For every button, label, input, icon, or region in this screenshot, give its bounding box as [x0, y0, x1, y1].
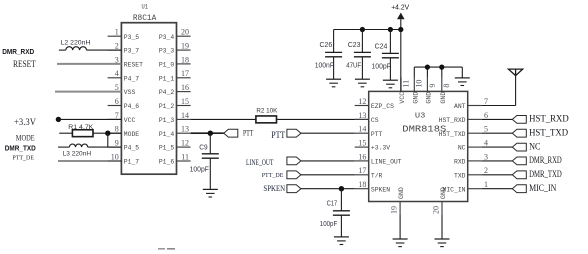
U3 pin 4 NC — [458, 139, 488, 152]
port flag HST_TXD — [482, 128, 569, 138]
node rail dot C24 — [388, 27, 393, 32]
svg-text:6: 6 — [115, 97, 119, 106]
L3 value label — [63, 151, 92, 158]
resistor R1 — [72, 130, 93, 137]
svg-text:P1_7: P1_7 — [124, 159, 140, 166]
svg-text:HST_TXD: HST_TXD — [439, 131, 466, 138]
U3 pin 19 GND (bottom) — [390, 187, 405, 215]
U1 pin 20 P3_4 — [159, 28, 191, 41]
svg-text:P3_3: P3_3 — [159, 48, 175, 55]
LINE_OUT label — [246, 157, 274, 167]
wire MODE to R1 — [59, 132, 72, 134]
port flag LINE_OUT — [287, 157, 301, 165]
node rail dot C23 — [360, 27, 365, 32]
wire rail to pin10 — [413, 67, 415, 77]
svg-text:100pF: 100pF — [320, 221, 337, 228]
svg-text:VSS: VSS — [124, 89, 136, 96]
port flag PTT (to U3 pin14) — [287, 129, 301, 137]
wire VSS to U1 pin 5 — [55, 91, 121, 93]
port flag HST_RXD — [482, 115, 569, 125]
svg-text:19: 19 — [181, 42, 189, 51]
svg-text:NC: NC — [529, 142, 540, 152]
svg-text:ANT: ANT — [454, 103, 466, 110]
capacitor C24 — [382, 30, 399, 88]
svg-text:DMR_TXD: DMR_TXD — [529, 170, 562, 180]
wire DMR_RXD to L2 — [59, 49, 66, 51]
svg-text:L3 220nH: L3 220nH — [63, 151, 92, 158]
svg-text:P3_5: P3_5 — [124, 34, 140, 41]
svg-text:DMR_TXD: DMR_TXD — [5, 146, 36, 153]
U3 pin 1 MIC_IN — [442, 180, 488, 193]
svg-text:RESET: RESET — [13, 59, 36, 69]
svg-text:P1_3: P1_3 — [159, 117, 175, 124]
svg-text:GND: GND — [440, 187, 447, 199]
wire DMR_TXD to L3 — [58, 146, 69, 148]
wire junction down to pin9 row — [107, 133, 109, 147]
wire U3 pin20 to ground — [441, 215, 443, 239]
svg-text:15: 15 — [181, 97, 189, 106]
IC U1 R8C1A body — [121, 23, 176, 175]
svg-text:U3: U3 — [415, 113, 426, 121]
svg-text:MIC_IN: MIC_IN — [529, 184, 556, 194]
svg-text:10: 10 — [111, 152, 119, 161]
node rail dot pin8 — [439, 65, 444, 70]
power +4.2V label — [391, 5, 409, 12]
svg-text:GND: GND — [398, 187, 405, 199]
wire rail to pin8 — [441, 67, 443, 77]
svg-text:P1_0: P1_0 — [159, 62, 175, 69]
wire L2 to U1 pin 2 — [87, 49, 122, 51]
capacitor C26 — [325, 30, 342, 87]
svg-text:20: 20 — [432, 206, 441, 214]
net label +3.3V — [14, 117, 36, 127]
svg-text:17: 17 — [358, 166, 366, 175]
U3 part name DMR818S — [402, 123, 446, 134]
power +4.2V arrow — [397, 13, 405, 20]
inductor L3 — [69, 144, 87, 147]
wire L3 to U1 pin 9 — [88, 146, 122, 148]
wire U1 pin14 to R2 — [191, 118, 256, 120]
svg-text:3: 3 — [484, 152, 488, 161]
svg-text:2: 2 — [115, 42, 119, 51]
U3 pin 15 +3.3V — [355, 139, 391, 152]
R2 value label — [256, 108, 278, 115]
SPKEN label — [263, 183, 285, 193]
net label DMR_RXD — [2, 49, 34, 56]
wire rail to ground — [461, 67, 463, 78]
svg-text:PTT: PTT — [371, 131, 383, 138]
port flag DMR_TXD — [482, 170, 562, 180]
U1 pin 11 P1_6 — [159, 152, 191, 165]
U1 pin 13 P1_4 — [159, 125, 191, 138]
U3 pin 6 HST_RXD — [439, 111, 488, 124]
svg-text:+3.3V: +3.3V — [14, 117, 36, 127]
U3 pin 2 TXD — [454, 166, 488, 179]
U1 pin 9 P4_5 — [108, 139, 140, 152]
U1 pin 10 P1_7 — [108, 152, 140, 165]
svg-text:DMR_RXD: DMR_RXD — [2, 49, 34, 56]
PTT label (U3 side) — [271, 130, 285, 140]
U1 pin 12 P1_5 — [159, 139, 191, 152]
wire LINE_OUT flag to U3 pin16 — [301, 160, 355, 162]
svg-text:P3_7: P3_7 — [124, 48, 140, 55]
wire U1 pin13 to PTT port — [191, 132, 224, 134]
port flag DMR_RXD — [482, 156, 562, 166]
port flag SPKEN — [287, 185, 301, 193]
C24 designator — [375, 43, 388, 50]
node C17 junction dot — [339, 186, 344, 191]
svg-text:14: 14 — [181, 111, 189, 120]
svg-text:100pF: 100pF — [372, 63, 391, 70]
svg-text:16: 16 — [181, 83, 189, 92]
wire PTT_DE to U1 pin 10 — [58, 160, 121, 162]
svg-text:19: 19 — [390, 206, 399, 214]
svg-text:7: 7 — [115, 111, 119, 120]
svg-text:1: 1 — [115, 28, 119, 37]
U1 designator — [142, 4, 149, 11]
svg-text:RXD: RXD — [454, 159, 466, 166]
svg-text:11: 11 — [181, 152, 189, 161]
capacitor C9 — [202, 133, 219, 197]
C9 value 100pF — [190, 167, 209, 174]
U1 pin 6 P4_6 — [108, 97, 140, 110]
svg-text:18: 18 — [181, 55, 189, 64]
U3 pin 12 EZP_CS — [355, 97, 394, 110]
U1 pin 1 P3_5 — [108, 28, 140, 41]
U3 pin 14 PTT — [355, 125, 383, 138]
svg-text:HST_RXD: HST_RXD — [529, 115, 569, 125]
net label PTT_DE — [12, 156, 34, 162]
svg-text:PTT: PTT — [271, 130, 285, 140]
U3 pin 5 HST_TXD — [439, 125, 488, 138]
svg-text:47UF: 47UF — [346, 62, 361, 69]
U3 pin 7 ANT — [454, 97, 488, 110]
wire +4.2V rail — [334, 29, 401, 31]
svg-text:P1_2: P1_2 — [159, 103, 175, 110]
U3 pin 16 LINE_OUT — [355, 152, 402, 165]
svg-text:R2 10K: R2 10K — [256, 108, 278, 115]
svg-text:EZP_CS: EZP_CS — [371, 103, 394, 110]
svg-text:13: 13 — [181, 125, 189, 134]
svg-text:MODE: MODE — [16, 133, 35, 142]
svg-text:RESET: RESET — [124, 62, 143, 69]
svg-text:1: 1 — [484, 180, 488, 189]
svg-text:LINE_OUT: LINE_OUT — [246, 157, 274, 167]
svg-text:CS: CS — [371, 117, 379, 124]
capacitor C23 — [354, 30, 371, 87]
svg-text:7: 7 — [484, 97, 488, 106]
svg-text:P1_4: P1_4 — [159, 131, 175, 138]
ground (U3 pin19) — [393, 239, 408, 247]
U3 pin 18 SPKEN — [355, 180, 391, 193]
svg-text:10: 10 — [415, 80, 424, 88]
net label MODE — [16, 133, 35, 142]
svg-text:P4_2: P4_2 — [159, 89, 175, 96]
C9 designator — [199, 144, 207, 151]
L2 value label — [61, 40, 91, 47]
C24 value 100pF — [372, 63, 391, 70]
wire RESET to U1 pin 3 — [57, 63, 121, 65]
U1 pin 5 VSS — [108, 83, 136, 96]
svg-text:12: 12 — [181, 139, 189, 148]
port flag PTT (from U1) — [224, 129, 238, 137]
svg-text:PTT_DE: PTT_DE — [12, 156, 34, 162]
U1 pin 4 P4_7 — [108, 69, 140, 82]
svg-text:8: 8 — [115, 125, 119, 134]
svg-text:C17: C17 — [327, 200, 338, 207]
wire +3.3V to U1 pin 7 VCC — [58, 118, 121, 120]
U1 pin 14 P1_3 — [159, 111, 191, 124]
svg-text:GND: GND — [426, 92, 433, 104]
U3 designator — [415, 113, 426, 121]
U1 pin 18 P1_0 — [159, 55, 191, 68]
svg-text:SPKEN: SPKEN — [263, 183, 285, 193]
node +3.3V junction dot — [56, 117, 61, 122]
wire PTT flag to U3 pin14 — [301, 132, 355, 134]
svg-text:12: 12 — [358, 97, 366, 106]
svg-text:HST_TXD: HST_TXD — [529, 128, 568, 138]
U1 pin 16 P4_2 — [159, 83, 191, 96]
svg-text:P4_5: P4_5 — [124, 145, 140, 152]
port flag PTT_DE — [287, 171, 301, 179]
C26 designator — [320, 42, 333, 49]
svg-text:13: 13 — [358, 111, 366, 120]
svg-text:100pF: 100pF — [190, 167, 209, 174]
U3 pin 10 GND (top) — [413, 77, 424, 103]
svg-text:P4_6: P4_6 — [124, 103, 140, 110]
svg-text:P3_4: P3_4 — [159, 34, 175, 41]
U1 pin 15 P1_2 — [159, 97, 191, 110]
svg-text:15: 15 — [358, 139, 366, 148]
net label DMR_TXD — [5, 146, 36, 153]
svg-text:100nF: 100nF — [315, 62, 334, 69]
svg-text:17: 17 — [181, 69, 189, 78]
U3 pin 13 CS — [355, 111, 379, 124]
svg-text:C26: C26 — [320, 42, 333, 49]
wire R1 to U1 pin 8 — [93, 132, 121, 134]
svg-text:DMR_RXD: DMR_RXD — [529, 156, 562, 166]
svg-text:14: 14 — [358, 125, 366, 134]
ground (U3 pin20) — [435, 239, 450, 247]
U1 pin 17 P1_1 — [159, 69, 191, 82]
svg-text:11: 11 — [401, 80, 410, 88]
PTT label (U1 side) — [243, 129, 253, 138]
U1 pin 2 P3_7 — [108, 42, 140, 55]
U1 pin 19 P3_3 — [159, 42, 191, 55]
svg-text:2: 2 — [484, 166, 488, 175]
U3 pin 20 GND (bottom) — [432, 187, 447, 215]
wire ANT to antenna — [482, 76, 516, 106]
wire PTT_DE flag to U3 pin17 — [301, 174, 355, 176]
svg-text:+4.2V: +4.2V — [391, 5, 409, 12]
U3 pin 17 T/R — [355, 166, 383, 179]
svg-text:GND: GND — [413, 92, 420, 104]
svg-text:R1 4.7K: R1 4.7K — [68, 124, 94, 131]
svg-text:P4_7: P4_7 — [124, 75, 140, 82]
svg-text:PTT_DE: PTT_DE — [262, 172, 284, 179]
svg-text:16: 16 — [358, 152, 366, 161]
svg-text:9: 9 — [115, 139, 119, 148]
IC U3 DMR818S body — [369, 91, 468, 201]
svg-text:U1: U1 — [142, 4, 149, 11]
U1 part name R8C1A — [133, 14, 157, 23]
R1 value label — [68, 124, 94, 131]
svg-text:P1_6: P1_6 — [159, 159, 175, 166]
svg-text:NC: NC — [458, 145, 466, 152]
wire U3 top gnd rail — [414, 66, 462, 68]
C26 value 100nF — [315, 62, 334, 69]
svg-text:8: 8 — [442, 84, 451, 88]
U1 pin 3 RESET — [108, 55, 144, 68]
port flag MIC_IN — [482, 184, 557, 194]
wire U3 pin19 to ground — [399, 215, 401, 239]
svg-text:5: 5 — [484, 125, 488, 134]
svg-text:PTT: PTT — [243, 129, 253, 138]
U3 pin 9 GND (top) — [426, 77, 437, 103]
U1 pin 8 MODE — [108, 125, 140, 138]
port flag NC — [482, 142, 541, 152]
svg-text:C9: C9 — [199, 144, 207, 151]
svg-text:P1_5: P1_5 — [159, 145, 175, 152]
U3 pin 3 RXD — [454, 152, 488, 165]
svg-text:VCC: VCC — [399, 92, 406, 104]
svg-text:4: 4 — [484, 139, 488, 148]
svg-text:C23: C23 — [348, 42, 361, 49]
svg-text:P1_1: P1_1 — [159, 75, 175, 82]
node rail dot pin9 — [425, 65, 430, 70]
svg-text:20: 20 — [181, 28, 189, 37]
svg-text:HST_RXD: HST_RXD — [439, 117, 466, 124]
node C9 junction dot — [208, 131, 213, 136]
svg-text:+3.3V: +3.3V — [371, 145, 390, 152]
PTT_DE label — [262, 172, 284, 179]
net label RESET — [13, 59, 36, 69]
svg-text:LINE_OUT: LINE_OUT — [371, 159, 402, 166]
node R1/P4_5 junction dot — [105, 131, 110, 136]
antenna E1 — [508, 69, 522, 76]
svg-text:T/R: T/R — [371, 172, 383, 179]
node rail dot at +4.2V line — [398, 27, 403, 32]
U3 pin 11 VCC (top) — [399, 77, 410, 103]
wire R2 to U3 pin13 CS — [277, 118, 369, 120]
svg-text:VCC: VCC — [124, 117, 136, 124]
wire rail to pin9 — [426, 67, 428, 77]
svg-text:C24: C24 — [375, 43, 388, 50]
C17 designator — [327, 200, 338, 207]
inductor L2 — [66, 47, 87, 50]
resistor R2 — [256, 116, 277, 123]
C23 value 47UF — [346, 62, 361, 69]
svg-text:R8C1A: R8C1A — [133, 14, 157, 23]
svg-text:GND: GND — [440, 92, 447, 104]
svg-text:4: 4 — [115, 69, 119, 78]
faint bottom marks — [158, 248, 175, 250]
wire +4.2V down to U3 pin11 — [400, 19, 402, 91]
svg-text:L2 220nH: L2 220nH — [61, 40, 91, 47]
ground (U3 top rail) — [455, 78, 470, 86]
svg-text:MODE: MODE — [124, 131, 140, 138]
U3 pin 8 GND (top) — [440, 77, 451, 103]
svg-text:18: 18 — [358, 180, 366, 189]
C23 designator — [348, 42, 361, 49]
capacitor C17 — [333, 189, 350, 245]
svg-text:6: 6 — [484, 111, 488, 120]
svg-text:SPKEN: SPKEN — [371, 186, 390, 193]
svg-text:TXD: TXD — [454, 172, 466, 179]
svg-text:9: 9 — [428, 84, 437, 88]
U1 pin 7 VCC — [108, 111, 136, 124]
wire SPKEN flag to U3 pin18 — [301, 188, 355, 190]
C17 value 100pF — [320, 221, 337, 228]
